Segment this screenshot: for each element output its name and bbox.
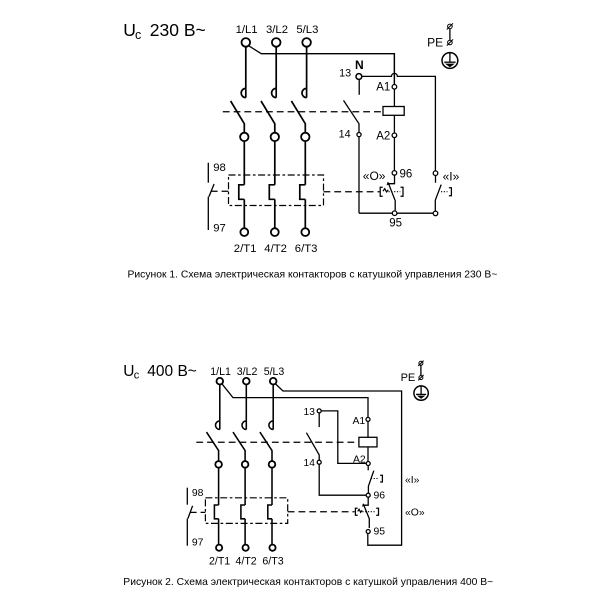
thermal overload element pole 1 (fig.1) bbox=[239, 185, 245, 200]
wire pole 3 lower (fig.2) bbox=[271, 519, 273, 545]
button O stem (fig.2) bbox=[364, 497, 368, 505]
terminal 4/T2 circle (fig.2) bbox=[243, 545, 249, 551]
terminal A2 circle (fig.1) bbox=[392, 133, 397, 138]
button O left bracket (fig.1) bbox=[380, 187, 383, 196]
button I actuator dotted line (fig.2) bbox=[371, 478, 379, 480]
button I actuator dotted line (fig.1) bbox=[441, 191, 448, 193]
PE terminal lower (fig.1) bbox=[447, 39, 453, 45]
svg-text:97: 97 bbox=[192, 538, 204, 549]
button O label (fig.1) bbox=[363, 169, 386, 183]
fixed contact hook pole 1 (fig.1) bbox=[241, 88, 246, 97]
button I right bracket (fig.1) bbox=[449, 188, 452, 196]
earth symbol (fig.2) bbox=[414, 386, 428, 400]
button O right bracket (fig.2) bbox=[376, 508, 378, 515]
button O blade (fig.1) bbox=[389, 184, 396, 211]
aux contact label 98 (fig.2) bbox=[192, 488, 204, 499]
button I top circle (fig.1) bbox=[433, 171, 438, 176]
button I blade (fig.1) bbox=[435, 185, 441, 212]
terminal 3/L2 circle (fig.1) bbox=[272, 38, 281, 47]
terminal 14 label (fig.1) bbox=[339, 128, 351, 140]
button O label (fig.2) bbox=[405, 508, 425, 519]
svg-text:A2: A2 bbox=[353, 454, 366, 465]
thermal overload element pole 3 (fig.1) bbox=[300, 185, 306, 200]
mechanical linkage dashed line (fig.2) bbox=[196, 441, 358, 443]
aux contact blade 97-98 (fig.1) bbox=[209, 184, 214, 197]
terminal 3/L2 label (fig.2) bbox=[237, 366, 258, 378]
aux contact 98 terminal line (fig.2) bbox=[186, 488, 188, 505]
terminal 14 label (fig.2) bbox=[304, 458, 316, 469]
terminal A1 label (fig.2) bbox=[353, 416, 366, 427]
wire pole 2 lower (fig.1) bbox=[274, 199, 276, 228]
wire pole 3 to overload (fig.2) bbox=[271, 468, 273, 505]
button O actuator dotted line (fig.2) bbox=[362, 511, 374, 513]
wire 13 stub (fig.1) bbox=[358, 80, 360, 95]
title Uc 400 V~ (fig.2) bbox=[123, 363, 197, 381]
terminal 2/T1 circle (fig.1) bbox=[240, 228, 248, 236]
terminal 13 label (fig.2) bbox=[304, 407, 316, 418]
aux contact 97 terminal line (fig.2) bbox=[186, 519, 188, 546]
button O blade arrowhead (fig.1) bbox=[387, 182, 391, 186]
PE terminal upper (fig.2) bbox=[418, 361, 423, 366]
wire pole 3 to overload (fig.1) bbox=[304, 141, 306, 185]
svg-text:Рисунок 1. Схема электрическая: Рисунок 1. Схема электрическая контактор… bbox=[128, 269, 498, 280]
aux contact 97 terminal line (fig.1) bbox=[207, 197, 209, 230]
button I right bracket (fig.2) bbox=[380, 475, 382, 482]
moving contact blade pole 2 (fig.2) bbox=[233, 432, 245, 461]
wire 5/L3 to right bus (fig.2) bbox=[276, 384, 402, 545]
thermal overload element pole 2 (fig.1) bbox=[269, 185, 275, 200]
caption figure 2 bbox=[123, 577, 493, 588]
button I label (fig.1) bbox=[443, 169, 460, 183]
thermal relay boundary box (fig.2) bbox=[205, 498, 287, 524]
terminal 14 circle (fig.2) bbox=[317, 460, 321, 464]
fixed contact hook pole 1 (fig.2) bbox=[216, 421, 220, 430]
aux contact label 97 (fig.1) bbox=[213, 222, 226, 234]
wire coil to A2 (fig.2) bbox=[367, 447, 369, 462]
wire coil to A2 (fig.1) bbox=[393, 115, 395, 133]
terminal 5/L3 label (fig.2) bbox=[264, 366, 285, 378]
svg-text:PE: PE bbox=[427, 36, 443, 50]
wire pole 2 upper (fig.2) bbox=[245, 385, 247, 421]
svg-text:5/L3: 5/L3 bbox=[296, 24, 318, 36]
PE label (fig.2) bbox=[401, 372, 416, 384]
terminal 96 circle (fig.2) bbox=[366, 493, 370, 497]
svg-text:3/L2: 3/L2 bbox=[237, 366, 258, 378]
button O blade arrowhead (fig.2) bbox=[362, 503, 365, 506]
terminal 2/T1 label (fig.2) bbox=[209, 555, 230, 567]
svg-text:98: 98 bbox=[192, 488, 204, 499]
aux contact label 97 (fig.2) bbox=[192, 538, 204, 549]
aux blade 13-14 (fig.2) bbox=[306, 433, 319, 461]
thermal overload element pole 3 (fig.2) bbox=[268, 505, 272, 519]
fixed contact hook pole 2 (fig.1) bbox=[272, 88, 277, 97]
moving contact blade pole 3 (fig.1) bbox=[291, 101, 305, 133]
aux contact 98 terminal line (fig.1) bbox=[207, 163, 209, 183]
svg-text:14: 14 bbox=[304, 458, 316, 469]
thermal overload element pole 1 (fig.2) bbox=[214, 505, 218, 519]
terminal 14 circle (fig.1) bbox=[357, 133, 361, 137]
thermal overload element pole 2 (fig.2) bbox=[241, 505, 245, 519]
terminal 3/L2 label (fig.1) bbox=[266, 24, 288, 36]
terminal 4/T2 label (fig.2) bbox=[235, 555, 256, 567]
moving contact blade pole 1 (fig.1) bbox=[231, 101, 245, 133]
terminal 4/T2 circle (fig.1) bbox=[271, 228, 279, 236]
contact circle pole 3 (fig.2) bbox=[269, 461, 276, 468]
svg-text:400 В~: 400 В~ bbox=[147, 363, 197, 380]
terminal 1/L1 circle (fig.1) bbox=[242, 38, 251, 47]
contact circle pole 1 (fig.1) bbox=[240, 133, 248, 141]
svg-text:13: 13 bbox=[304, 407, 316, 418]
svg-text:c: c bbox=[134, 369, 140, 381]
moving contact blade pole 3 (fig.2) bbox=[260, 432, 272, 461]
svg-text:95: 95 bbox=[374, 527, 386, 538]
wire pole 3 lower (fig.1) bbox=[304, 199, 306, 228]
terminal 96 label (fig.1) bbox=[400, 168, 413, 180]
coil K1 (fig.1) bbox=[383, 107, 404, 116]
svg-text:Рисунок 2. Схема электрическая: Рисунок 2. Схема электрическая контактор… bbox=[123, 577, 493, 588]
svg-text:97: 97 bbox=[213, 222, 226, 234]
wire 1/L1 to A1 bus (fig.2) bbox=[222, 384, 368, 418]
svg-text:«O»: «O» bbox=[363, 169, 386, 183]
thermal relay boundary box (fig.1) bbox=[229, 175, 324, 206]
wire A2 to 96 (fig.1) bbox=[393, 138, 395, 171]
button O actuator dotted line (fig.1) bbox=[389, 191, 401, 193]
aux contact blade 97-98 (fig.2) bbox=[188, 506, 193, 519]
wire 1/L1 to top bus (fig.1) bbox=[248, 46, 394, 85]
wire pole 2 to overload (fig.2) bbox=[244, 468, 246, 505]
wire pole 2 lower (fig.2) bbox=[244, 519, 246, 545]
contact circle pole 2 (fig.2) bbox=[242, 461, 249, 468]
fixed contact hook pole 3 (fig.2) bbox=[269, 421, 273, 430]
button O stem (fig.1) bbox=[389, 175, 395, 184]
terminal 96 label (fig.2) bbox=[374, 491, 386, 502]
title Uc 230 V~ (fig.1) bbox=[123, 20, 206, 42]
box-to-O-button dashed link (fig.2) bbox=[288, 511, 355, 513]
terminal A1 circle (fig.2) bbox=[366, 417, 370, 421]
button I stem (fig.1) bbox=[435, 176, 437, 183]
wire pole 1 upper (fig.2) bbox=[219, 385, 221, 421]
contact circle pole 1 (fig.2) bbox=[215, 461, 222, 468]
caption figure 1 bbox=[128, 269, 498, 280]
terminal 5/L3 circle (fig.1) bbox=[302, 38, 311, 47]
svg-text:14: 14 bbox=[339, 128, 351, 140]
node 95 circle (fig.1) bbox=[392, 211, 397, 216]
terminal 13 circle (fig.2) bbox=[317, 409, 321, 413]
svg-text:5/L3: 5/L3 bbox=[264, 366, 285, 378]
svg-text:A1: A1 bbox=[376, 81, 390, 93]
svg-text:«I»: «I» bbox=[405, 475, 420, 486]
PE link wire (fig.1) bbox=[449, 29, 451, 41]
net N label (fig.1) bbox=[355, 58, 364, 72]
bottom bus wire 95 (fig.1) bbox=[359, 212, 433, 214]
node 95 label (fig.1) bbox=[389, 218, 402, 230]
svg-text:«O»: «O» bbox=[405, 508, 425, 519]
wire A1 column (fig.1) bbox=[393, 54, 395, 85]
svg-text:U: U bbox=[123, 20, 136, 40]
terminal 1/L1 label (fig.2) bbox=[210, 366, 231, 378]
svg-text:PE: PE bbox=[401, 372, 416, 384]
terminal 2/T1 circle (fig.2) bbox=[216, 545, 222, 551]
terminal 6/T3 circle (fig.1) bbox=[301, 228, 309, 236]
wire pole 3 upper (fig.1) bbox=[306, 47, 308, 89]
aux blade 13-14 (fig.1) bbox=[344, 100, 360, 132]
terminal A2 label (fig.2) bbox=[353, 454, 366, 465]
button O left bracket (fig.2) bbox=[355, 508, 357, 515]
svg-text:c: c bbox=[135, 28, 141, 42]
terminal 3/L2 circle (fig.2) bbox=[243, 378, 250, 385]
terminal A1 circle (fig.1) bbox=[392, 85, 397, 90]
svg-text:230 В~: 230 В~ bbox=[150, 20, 206, 40]
svg-text:6/T3: 6/T3 bbox=[295, 243, 318, 255]
terminal 2/T1 label (fig.1) bbox=[234, 243, 257, 255]
wire pole 1 to overload (fig.2) bbox=[218, 468, 220, 505]
terminal 6/T3 label (fig.1) bbox=[295, 243, 318, 255]
svg-text:2/T1: 2/T1 bbox=[234, 243, 257, 255]
svg-text:95: 95 bbox=[389, 218, 402, 230]
button I label (fig.2) bbox=[405, 475, 420, 486]
wire pole 2 to overload (fig.1) bbox=[274, 141, 276, 185]
PE terminal lower (fig.2) bbox=[418, 375, 423, 380]
fixed contact hook pole 3 (fig.1) bbox=[302, 88, 307, 97]
terminal 6/T3 circle (fig.2) bbox=[269, 545, 275, 551]
svg-text:6/T3: 6/T3 bbox=[262, 555, 283, 567]
terminal 4/T2 label (fig.1) bbox=[264, 243, 287, 255]
svg-text:U: U bbox=[123, 363, 134, 380]
svg-text:4/T2: 4/T2 bbox=[264, 243, 287, 255]
wire 13 to A2 (fig.2) bbox=[321, 411, 366, 464]
terminal 5/L3 circle (fig.2) bbox=[270, 378, 277, 385]
svg-text:N: N bbox=[355, 58, 364, 72]
fixed contact hook pole 2 (fig.2) bbox=[242, 421, 246, 430]
aux-to-box dashed link (fig.2) bbox=[190, 511, 206, 513]
aux contact label 98 (fig.1) bbox=[213, 162, 226, 174]
svg-text:1/L1: 1/L1 bbox=[236, 24, 258, 36]
terminal 95 circle (fig.2) bbox=[366, 530, 370, 534]
terminal A2 circle (fig.2) bbox=[366, 462, 370, 466]
wire A1 to coil (fig.1) bbox=[393, 89, 395, 106]
button O right bracket (fig.1) bbox=[401, 187, 404, 196]
terminal 5/L3 label (fig.1) bbox=[296, 24, 318, 36]
wire pole 1 upper (fig.1) bbox=[245, 47, 247, 89]
PE label (fig.1) bbox=[427, 36, 443, 50]
PE link wire (fig.2) bbox=[420, 365, 422, 376]
wire pole 1 lower (fig.2) bbox=[218, 519, 220, 545]
terminal 1/L1 label (fig.1) bbox=[236, 24, 258, 36]
wire pole 2 upper (fig.1) bbox=[275, 47, 277, 89]
wire pole 1 to overload (fig.1) bbox=[243, 141, 245, 185]
button I blade (fig.2) bbox=[368, 471, 373, 494]
button O blade (fig.2) bbox=[364, 505, 370, 528]
terminal 95 label (fig.2) bbox=[374, 527, 386, 538]
button O return squiggle (fig.1) bbox=[383, 189, 388, 192]
wire 13 stub (fig.2) bbox=[318, 413, 320, 427]
svg-text:A2: A2 bbox=[376, 131, 390, 143]
terminal 13/N circle (fig.1) bbox=[356, 74, 362, 80]
button O return squiggle (fig.2) bbox=[358, 509, 362, 512]
wire pole 1 lower (fig.1) bbox=[243, 199, 245, 228]
moving contact blade pole 1 (fig.2) bbox=[207, 432, 219, 461]
button I bottom circle (fig.1) bbox=[433, 211, 438, 216]
terminal 96 circle (fig.1) bbox=[392, 171, 397, 176]
svg-text:96: 96 bbox=[400, 168, 413, 180]
earth symbol (fig.1) bbox=[442, 53, 458, 69]
button I stem (fig.2) bbox=[367, 466, 369, 471]
svg-text:A1: A1 bbox=[353, 416, 366, 427]
svg-text:«I»: «I» bbox=[443, 169, 460, 183]
contact circle pole 2 (fig.1) bbox=[271, 133, 279, 141]
terminal 13 label (fig.1) bbox=[339, 68, 351, 80]
wire 14 down to bottom bus (fig.1) bbox=[358, 137, 360, 214]
svg-text:4/T2: 4/T2 bbox=[235, 555, 256, 567]
wire N to I-button column with hop (fig.1) bbox=[362, 73, 436, 171]
terminal A1 label (fig.1) bbox=[376, 81, 390, 93]
contact circle pole 3 (fig.1) bbox=[301, 133, 309, 141]
wire 14 to 96 (fig.2) bbox=[319, 464, 366, 495]
wire pole 3 upper (fig.2) bbox=[272, 385, 274, 421]
svg-text:3/L2: 3/L2 bbox=[266, 24, 288, 36]
wire A1 to coil (fig.2) bbox=[367, 421, 369, 437]
terminal 1/L1 circle (fig.2) bbox=[217, 378, 224, 385]
svg-text:2/T1: 2/T1 bbox=[209, 555, 230, 567]
svg-text:98: 98 bbox=[213, 162, 226, 174]
mechanical linkage dashed line (fig.1) bbox=[223, 111, 383, 113]
aux-to-box dashed link (fig.1) bbox=[211, 190, 229, 192]
PE terminal upper (fig.1) bbox=[447, 23, 453, 29]
terminal 6/T3 label (fig.2) bbox=[262, 555, 283, 567]
terminal A2 label (fig.1) bbox=[376, 131, 390, 143]
svg-text:13: 13 bbox=[339, 68, 351, 80]
moving contact blade pole 2 (fig.1) bbox=[261, 101, 275, 133]
box-to-O-button dashed link (fig.1) bbox=[324, 191, 380, 193]
svg-text:1/L1: 1/L1 bbox=[210, 366, 231, 378]
svg-text:96: 96 bbox=[374, 491, 386, 502]
coil K2 (fig.2) bbox=[359, 437, 377, 447]
